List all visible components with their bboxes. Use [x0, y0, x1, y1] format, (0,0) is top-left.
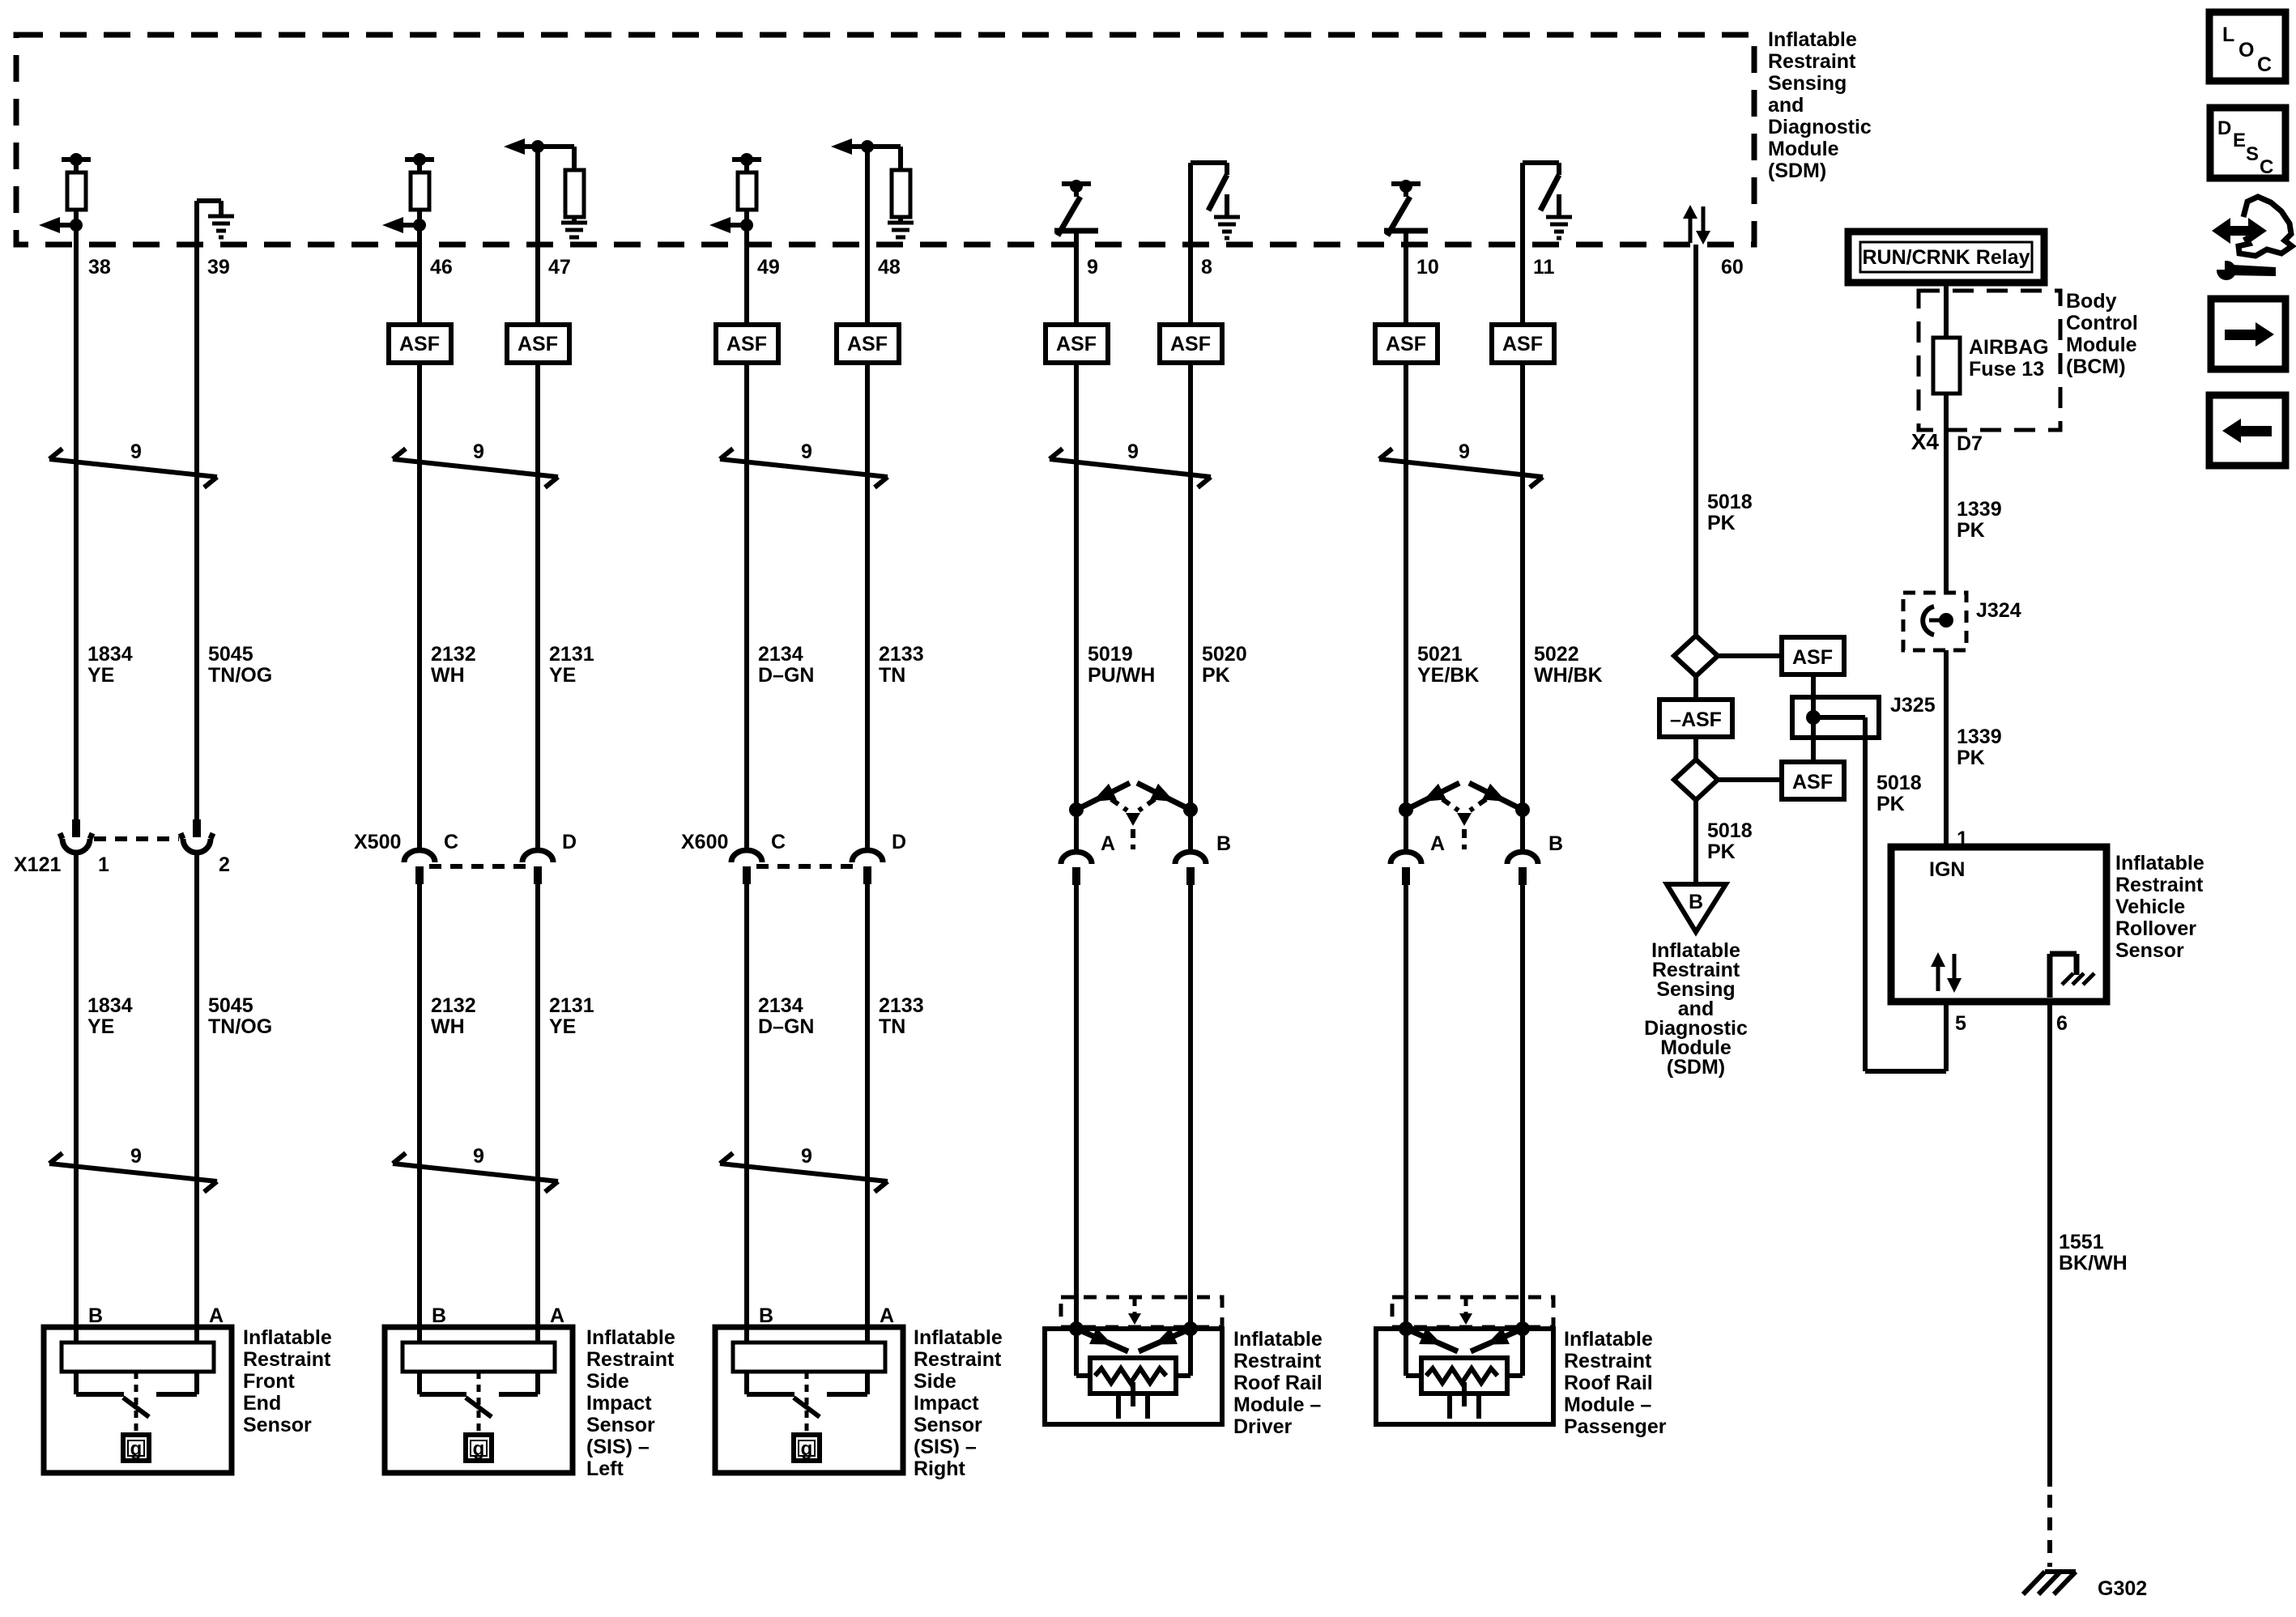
- svg-text:Roof Rail: Roof Rail: [1564, 1372, 1653, 1394]
- ASF fuse box on wire x=1329: [1046, 325, 1108, 363]
- wire J324 to rollover sensor: [1944, 650, 1949, 850]
- svg-text:G302: G302: [2098, 1577, 2147, 1600]
- switch to ground at SDM pin 8: [1188, 163, 1193, 245]
- sensor inertia switch: [477, 1372, 481, 1432]
- wire 9 upper: [1074, 245, 1079, 325]
- svg-text:2134: 2134: [758, 643, 803, 666]
- squib loop wires: [1074, 1329, 1079, 1376]
- svg-text:S: S: [2246, 143, 2259, 165]
- wire ASF to J325: [1811, 674, 1816, 697]
- back arrow icon box: [2209, 395, 2285, 466]
- svg-text:Restraint: Restraint: [586, 1348, 675, 1371]
- svg-text:g: g: [801, 1438, 813, 1460]
- svg-text:X4: X4: [1911, 429, 1940, 454]
- svg-text:PK: PK: [1876, 793, 1905, 815]
- svg-text:5045: 5045: [208, 994, 253, 1017]
- svg-text:YE: YE: [549, 1015, 576, 1038]
- svg-text:and: and: [1768, 94, 1804, 117]
- svg-text:Impact: Impact: [914, 1392, 979, 1415]
- svg-text:X500: X500: [354, 831, 401, 853]
- svg-text:Left: Left: [586, 1457, 624, 1480]
- ASF fuse box on wire x=518: [389, 325, 451, 363]
- svg-text:O: O: [2238, 39, 2254, 62]
- resistor at SDM pin 47: [572, 147, 577, 170]
- sensor internal stubs: [744, 1372, 749, 1394]
- svg-text:Inflatable: Inflatable: [914, 1326, 1003, 1349]
- ASF box upper right: [1782, 637, 1844, 674]
- svg-text:Inflatable: Inflatable: [586, 1326, 675, 1349]
- squib legs: [1447, 1394, 1452, 1419]
- ground at SDM pin 48: [888, 221, 914, 225]
- ASF fuse box on wire x=1071: [837, 325, 899, 363]
- wire 49 upper: [744, 245, 749, 325]
- sensor inertia switch: [805, 1372, 809, 1432]
- svg-text:ASF: ASF: [726, 333, 767, 355]
- svg-text:ASF: ASF: [1792, 646, 1833, 669]
- svg-text:Inflatable: Inflatable: [1564, 1328, 1653, 1351]
- svg-text:D7: D7: [1957, 432, 1983, 455]
- svg-text:D: D: [892, 831, 906, 853]
- svg-text:PK: PK: [1707, 840, 1736, 863]
- squib legs: [1116, 1394, 1121, 1419]
- wire 10 upper: [1404, 245, 1408, 325]
- connector X600 mating dashed line: [756, 864, 858, 869]
- svg-text:RUN/CRNK Relay: RUN/CRNK Relay: [1863, 246, 2030, 269]
- wire 2132 WH lower: [417, 883, 422, 1344]
- svg-text:5021: 5021: [1417, 643, 1463, 666]
- wire splice lower to ASF: [1718, 777, 1782, 782]
- svg-text:B: B: [88, 1304, 103, 1327]
- -ASF box: [1659, 700, 1732, 737]
- svg-text:Restraint: Restraint: [243, 1348, 331, 1371]
- wire 46 upper: [417, 245, 422, 325]
- wire splice to ASF: [1718, 653, 1782, 658]
- SDM module dashed box: [16, 35, 1754, 245]
- sensor connector bar: [403, 1343, 555, 1372]
- svg-text:Front: Front: [243, 1370, 296, 1393]
- svg-text:Inflatable: Inflatable: [1768, 28, 1857, 51]
- harness slash 9 lower wires at x=94: [49, 1164, 217, 1181]
- splice diamond lower: [1674, 760, 1718, 800]
- arrow at SDM pin 46: [413, 219, 426, 232]
- svg-text:ASF: ASF: [1386, 333, 1426, 355]
- svg-text:Module –: Module –: [1564, 1394, 1651, 1416]
- svg-text:9: 9: [130, 440, 142, 463]
- sensor connector bar: [62, 1343, 214, 1372]
- svg-text:5045: 5045: [208, 643, 253, 666]
- svg-text:Inflatable: Inflatable: [2115, 852, 2204, 874]
- ASF fuse box on wire x=664: [507, 325, 569, 363]
- svg-text:Restraint: Restraint: [2115, 874, 2204, 896]
- svg-text:Restraint: Restraint: [1768, 50, 1856, 73]
- svg-text:Passenger: Passenger: [1564, 1415, 1667, 1438]
- squib left blade: [1406, 1329, 1458, 1351]
- svg-text:D–GN: D–GN: [758, 1015, 814, 1038]
- roof rail module box: [1045, 1329, 1222, 1424]
- svg-text:46: 46: [430, 256, 453, 279]
- svg-text:IGN: IGN: [1929, 858, 1965, 881]
- BCM dashed box: [1919, 291, 2060, 430]
- wire fuse to J324: [1944, 394, 1949, 593]
- svg-text:J325: J325: [1890, 694, 1936, 717]
- svg-text:Inflatable: Inflatable: [1233, 1328, 1323, 1351]
- ASF fuse box on wire x=1470: [1160, 325, 1222, 363]
- svg-text:Side: Side: [586, 1370, 629, 1393]
- svg-text:X600: X600: [681, 831, 728, 853]
- ground G302: [2023, 1572, 2045, 1594]
- ASF fuse box on wire x=1736: [1375, 325, 1438, 363]
- sensor outer box: [385, 1327, 573, 1473]
- sensor g symbol: [466, 1435, 492, 1461]
- svg-text:Sensing: Sensing: [1768, 72, 1847, 95]
- squib loop wires: [1404, 1329, 1408, 1376]
- switch to ground at SDM pin 11: [1520, 163, 1525, 245]
- svg-text:Vehicle: Vehicle: [2115, 896, 2185, 918]
- wire 1551 dashed segment: [2047, 1495, 2052, 1567]
- svg-text:YE: YE: [549, 664, 576, 687]
- svg-text:2134: 2134: [758, 994, 803, 1017]
- svg-text:10: 10: [1416, 256, 1439, 279]
- ASF box lower right: [1782, 762, 1844, 799]
- roof rail module connector dashed box: [1392, 1297, 1553, 1327]
- svg-text:9: 9: [130, 1145, 142, 1168]
- svg-text:YE: YE: [87, 664, 114, 687]
- svg-text:49: 49: [757, 256, 780, 279]
- shorting bar left blade: [1406, 783, 1459, 810]
- svg-text:Module: Module: [2066, 334, 2137, 356]
- wire J325 to ASF lower: [1811, 738, 1816, 762]
- svg-text:WH: WH: [431, 664, 465, 687]
- squib junction dots: [1399, 1321, 1413, 1336]
- dashed shorting link: [1442, 799, 1459, 811]
- resistor at SDM pin 46: [405, 157, 434, 162]
- svg-text:PK: PK: [1202, 664, 1230, 687]
- svg-text:9: 9: [801, 1145, 812, 1168]
- svg-text:B: B: [1689, 891, 1703, 913]
- connector X500 mating dashed line: [429, 864, 528, 869]
- wire diamond to -ASF: [1693, 676, 1698, 700]
- connector X600 pin D terminal: [852, 850, 883, 862]
- schematic reference icon: [2212, 218, 2267, 244]
- svg-text:Control: Control: [2066, 312, 2138, 334]
- shorting bar right blade: [1137, 783, 1191, 810]
- svg-text:AIRBAG: AIRBAG: [1969, 336, 2049, 359]
- wire 1834 YE lower: [74, 852, 79, 1344]
- dashed shorting link: [1111, 799, 1127, 811]
- J324 terminal symbol: [1923, 606, 1934, 635]
- svg-text:D: D: [562, 831, 577, 853]
- connector pin B terminal: [1507, 852, 1538, 864]
- svg-text:9: 9: [1127, 440, 1139, 463]
- svg-text:Sensor: Sensor: [914, 1414, 982, 1436]
- arrow at SDM pin 38: [70, 219, 83, 232]
- svg-text:Roof Rail: Roof Rail: [1233, 1372, 1323, 1394]
- svg-text:A: A: [550, 1304, 564, 1327]
- svg-text:1339: 1339: [1957, 498, 2002, 521]
- svg-text:B: B: [759, 1304, 773, 1327]
- squib junction dots: [1069, 1321, 1084, 1336]
- wire 60: [1693, 245, 1698, 636]
- svg-text:5018: 5018: [1707, 491, 1753, 513]
- connector pin B terminal: [1175, 852, 1206, 864]
- svg-text:5020: 5020: [1202, 643, 1247, 666]
- svg-text:Restraint: Restraint: [914, 1348, 1002, 1371]
- rollover sensor internal ground: [2047, 954, 2053, 998]
- svg-text:2132: 2132: [431, 994, 476, 1017]
- svg-text:Diagnostic: Diagnostic: [1768, 116, 1872, 138]
- svg-text:ASF: ASF: [1170, 333, 1211, 355]
- harness slash 9 wires at x=1329: [1050, 459, 1211, 477]
- junction dot right: [1183, 802, 1198, 817]
- wire SDM pin 48: [865, 147, 870, 245]
- svg-text:Right: Right: [914, 1457, 966, 1480]
- svg-text:Impact: Impact: [586, 1392, 652, 1415]
- svg-text:C: C: [2260, 156, 2273, 178]
- LOC icon box: [2209, 12, 2285, 81]
- J325 internal wire and dot: [1811, 697, 1816, 738]
- wire SDM pin 47: [535, 147, 540, 245]
- ASF fuse box on wire x=922: [716, 325, 778, 363]
- svg-text:Inflatable: Inflatable: [243, 1326, 332, 1349]
- sensor outer box: [715, 1327, 903, 1473]
- svg-text:Sensor: Sensor: [2115, 939, 2184, 962]
- rollover sensor signal arrows: [1936, 965, 1940, 991]
- wire 2131 YE lower: [535, 883, 540, 1344]
- svg-text:(BCM): (BCM): [2066, 355, 2126, 378]
- svg-text:2131: 2131: [549, 994, 594, 1017]
- svg-text:2131: 2131: [549, 643, 594, 666]
- svg-text:(SIS) –: (SIS) –: [586, 1436, 650, 1458]
- harness slash 9 wires at x=1736: [1379, 459, 1543, 477]
- svg-text:(SDM): (SDM): [1667, 1056, 1725, 1079]
- svg-text:5: 5: [1955, 1012, 1966, 1035]
- sensor inertia switch: [134, 1372, 138, 1432]
- svg-text:Body: Body: [2066, 290, 2117, 313]
- svg-text:TN/OG: TN/OG: [208, 664, 272, 687]
- svg-text:E: E: [2233, 130, 2246, 151]
- svg-text:1: 1: [98, 853, 109, 876]
- svg-text:PK: PK: [1957, 747, 1985, 769]
- arrow at SDM pin 47: [504, 138, 525, 155]
- svg-text:39: 39: [207, 256, 230, 279]
- svg-text:2: 2: [219, 853, 230, 876]
- svg-text:ASF: ASF: [847, 333, 888, 355]
- ground at SDM pin 8: [1225, 194, 1229, 217]
- ground at SDM pin 39: [208, 215, 234, 219]
- connector X121 pin 2 terminal: [193, 819, 201, 837]
- svg-text:1834: 1834: [87, 643, 133, 666]
- sensor g symbol: [794, 1435, 820, 1461]
- wire 5021 YE/BK lower: [1404, 884, 1408, 1329]
- junction dot left: [1399, 802, 1413, 817]
- roof rail module box: [1376, 1329, 1553, 1424]
- svg-text:(SDM): (SDM): [1768, 160, 1826, 182]
- sensor internal stubs: [417, 1372, 422, 1394]
- wire 1551 BK/WH: [2047, 1002, 2052, 1487]
- svg-text:47: 47: [548, 256, 571, 279]
- svg-text:ASF: ASF: [1056, 333, 1097, 355]
- svg-text:9: 9: [473, 440, 484, 463]
- svg-text:1834: 1834: [87, 994, 133, 1017]
- svg-text:D–GN: D–GN: [758, 664, 814, 687]
- J325 splice pack box: [1792, 697, 1879, 738]
- wire 5022 WH/BK lower: [1520, 884, 1525, 1329]
- connector X500 pin D terminal: [522, 850, 553, 862]
- svg-text:1551: 1551: [2059, 1231, 2104, 1253]
- svg-text:Fuse 13: Fuse 13: [1969, 358, 2044, 381]
- splice diamond upper: [1674, 636, 1718, 676]
- wire 47 upper: [535, 245, 540, 325]
- wire 5045 TN/OG lower: [194, 852, 199, 1344]
- svg-text:TN/OG: TN/OG: [208, 1015, 272, 1038]
- svg-text:TN: TN: [879, 664, 905, 687]
- arrow at SDM pin 48: [831, 138, 852, 155]
- roof rail module connector dashed box: [1061, 1297, 1222, 1327]
- svg-text:5019: 5019: [1088, 643, 1133, 666]
- wire 5018 PK to pin 5: [1863, 738, 1868, 1071]
- sensor connector bar: [733, 1343, 885, 1372]
- squib resistor body: [1090, 1358, 1176, 1394]
- svg-text:D: D: [2217, 117, 2231, 139]
- squib left blade: [1076, 1329, 1128, 1351]
- svg-text:1339: 1339: [1957, 726, 2002, 748]
- svg-text:WH: WH: [431, 1015, 465, 1038]
- ground at SDM pin 11: [1557, 194, 1561, 217]
- off-page triangle B: [1667, 884, 1726, 932]
- svg-text:(SIS) –: (SIS) –: [914, 1436, 977, 1458]
- AIRBAG Fuse 13: [1933, 338, 1960, 394]
- svg-text:End: End: [243, 1392, 281, 1415]
- svg-text:B: B: [1548, 832, 1563, 855]
- wire SDM pin 39 to ground: [194, 201, 199, 245]
- rollover sensor box: [1891, 847, 2106, 1002]
- wire 11 upper: [1520, 245, 1525, 325]
- svg-text:Restraint: Restraint: [1564, 1350, 1652, 1372]
- svg-text:38: 38: [88, 256, 111, 279]
- connector pin A terminal: [1061, 852, 1092, 864]
- svg-text:J324: J324: [1976, 599, 2021, 622]
- squib resistor element: [1095, 1368, 1166, 1383]
- squib resistor body: [1421, 1358, 1507, 1394]
- svg-text:6: 6: [2056, 1012, 2068, 1035]
- connector X500 pin C terminal: [404, 850, 435, 862]
- svg-text:A: A: [209, 1304, 224, 1327]
- RUN/CRNK Relay box: [1848, 232, 2044, 283]
- harness slash 9 wires at x=922: [720, 459, 888, 477]
- svg-text:Side: Side: [914, 1370, 956, 1393]
- svg-text:g: g: [473, 1438, 485, 1460]
- svg-text:ASF: ASF: [518, 333, 558, 355]
- svg-text:ASF: ASF: [1792, 771, 1833, 794]
- svg-text:A: A: [1101, 832, 1115, 855]
- svg-text:60: 60: [1721, 256, 1744, 279]
- wire 5020 PK lower: [1188, 884, 1193, 1329]
- connector X121 mating dashed line: [94, 836, 179, 841]
- svg-text:X121: X121: [14, 853, 61, 876]
- svg-text:9: 9: [1459, 440, 1470, 463]
- svg-text:Restraint: Restraint: [1233, 1350, 1322, 1372]
- wire 5019 PU/WH lower: [1074, 884, 1079, 1329]
- roof rail module dashed index arrow: [1133, 1299, 1137, 1315]
- harness slash 9 lower wires at x=922: [720, 1164, 888, 1181]
- forward arrow icon box: [2211, 299, 2285, 369]
- svg-text:Rollover: Rollover: [2115, 917, 2196, 940]
- svg-text:5018: 5018: [1707, 819, 1753, 842]
- shorting bar right blade: [1469, 783, 1523, 810]
- DESC icon box: [2210, 108, 2285, 178]
- junction dot left: [1069, 802, 1084, 817]
- svg-text:YE/BK: YE/BK: [1417, 664, 1479, 687]
- wire 39 upper: [194, 201, 199, 820]
- wire 2133 TN lower: [865, 883, 870, 1344]
- squib right blade: [1139, 1329, 1191, 1351]
- sensor g symbol: [123, 1435, 149, 1461]
- svg-text:PK: PK: [1957, 519, 1985, 542]
- J324 in-line connector dashed box: [1903, 593, 1966, 650]
- svg-text:Module –: Module –: [1233, 1394, 1321, 1416]
- harness slash 9 wires at x=518: [393, 459, 558, 477]
- roof rail module dashed index arrow: [1464, 1299, 1468, 1315]
- svg-text:48: 48: [878, 256, 901, 279]
- svg-text:A: A: [880, 1304, 894, 1327]
- svg-text:8: 8: [1201, 256, 1212, 279]
- svg-text:9: 9: [801, 440, 812, 463]
- wire 2134 D-GN lower: [744, 883, 749, 1344]
- svg-text:Module: Module: [1768, 138, 1839, 160]
- svg-text:9: 9: [1087, 256, 1098, 279]
- sensor outer box: [44, 1327, 232, 1473]
- svg-text:BK/WH: BK/WH: [2059, 1252, 2128, 1274]
- bidirectional signal arrows at SDM pin 60: [1689, 217, 1693, 243]
- harness slash 9 wires at x=94: [49, 459, 217, 477]
- svg-text:Sensor: Sensor: [586, 1414, 655, 1436]
- squib right blade: [1471, 1329, 1523, 1351]
- switch at SDM pin 9: [1062, 181, 1091, 186]
- resistor at SDM pin 48: [898, 147, 903, 170]
- svg-text:L: L: [2222, 23, 2234, 46]
- wire 38 upper: [74, 211, 79, 820]
- svg-text:B: B: [432, 1304, 446, 1327]
- ground at SDM pin 47: [561, 221, 587, 225]
- ASF fuse box on wire x=1880: [1492, 325, 1554, 363]
- svg-text:11: 11: [1533, 256, 1555, 279]
- svg-text:C: C: [2257, 53, 2272, 76]
- svg-text:g: g: [130, 1438, 143, 1460]
- svg-text:9: 9: [473, 1145, 484, 1168]
- svg-text:Sensor: Sensor: [243, 1414, 312, 1436]
- squib resistor element: [1426, 1368, 1497, 1383]
- junction dot right: [1515, 802, 1530, 817]
- connector pin A terminal: [1391, 852, 1421, 864]
- svg-text:C: C: [444, 831, 458, 853]
- wire relay to fuse: [1944, 283, 1949, 338]
- svg-text:ASF: ASF: [1502, 333, 1543, 355]
- connector X600 pin C terminal: [731, 850, 762, 862]
- svg-text:WH/BK: WH/BK: [1534, 664, 1603, 687]
- svg-text:A: A: [1430, 832, 1445, 855]
- svg-text:C: C: [771, 831, 786, 853]
- resistor at SDM pin 49: [732, 157, 761, 162]
- svg-text:PK: PK: [1707, 512, 1736, 534]
- svg-text:5022: 5022: [1534, 643, 1579, 666]
- svg-text:–ASF: –ASF: [1670, 709, 1722, 731]
- sensor internal stubs: [74, 1372, 79, 1394]
- arrow at SDM pin 49: [740, 219, 753, 232]
- svg-text:ASF: ASF: [399, 333, 440, 355]
- connector X121 pin 1 terminal: [72, 819, 80, 837]
- svg-text:Driver: Driver: [1233, 1415, 1293, 1438]
- svg-text:2132: 2132: [431, 643, 476, 666]
